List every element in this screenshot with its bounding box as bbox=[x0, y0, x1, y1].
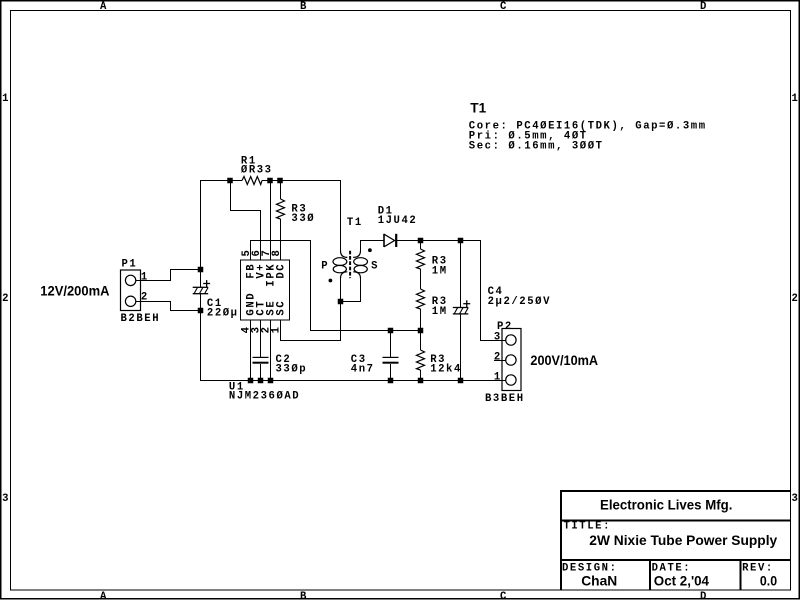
label R3 1M upper value bbox=[432, 265, 448, 277]
wire R3 12k4 bottom lead bbox=[420, 370, 422, 380]
U1 pin number 2 bbox=[261, 325, 273, 333]
svg-text:NJM236ØAD: NJM236ØAD bbox=[229, 391, 300, 403]
label C1 value 220u bbox=[207, 307, 239, 319]
wire CT pin3 upper lead bbox=[260, 320, 262, 357]
wire GND pin4 bbox=[250, 320, 252, 380]
zone letter C bottom bbox=[500, 591, 507, 600]
svg-text:1: 1 bbox=[494, 371, 502, 383]
svg-text:2: 2 bbox=[494, 351, 502, 363]
wire T1 primary top lead bbox=[340, 180, 342, 251]
svg-text:DC: DC bbox=[276, 263, 288, 279]
svg-text:1: 1 bbox=[271, 325, 283, 333]
wire P2 pin2 stub bbox=[494, 360, 506, 362]
U1 pin label GND bbox=[246, 292, 258, 316]
T1 S winding label bbox=[371, 260, 379, 272]
wire IPK pin7 bbox=[270, 180, 272, 260]
svg-text:0.0: 0.0 bbox=[760, 572, 777, 588]
zone number 1 left bbox=[2, 93, 8, 105]
U1 pin label DC bbox=[276, 263, 288, 279]
junction node T1 switch bbox=[338, 299, 344, 305]
connector P1 bbox=[121, 270, 141, 311]
U1 pin number 4 bbox=[241, 325, 253, 333]
svg-text:3: 3 bbox=[494, 331, 502, 343]
title block designer name bbox=[581, 572, 617, 588]
svg-text:B3BEH: B3BEH bbox=[485, 393, 525, 405]
svg-text:Electronic Lives Mfg.: Electronic Lives Mfg. bbox=[600, 497, 732, 513]
wire R3 1M lower to feedback node and R3 12k4 top bbox=[420, 309, 422, 350]
wire C3 top lead bbox=[390, 330, 392, 357]
svg-text:33Øp: 33Øp bbox=[276, 364, 308, 376]
label P2 pin 3 bbox=[494, 331, 502, 343]
capacitor C4 electrolytic symbol bbox=[453, 300, 470, 314]
label R3 330 value bbox=[291, 213, 315, 225]
U1 pin number 1 bbox=[271, 325, 283, 333]
svg-text:T1: T1 bbox=[347, 217, 363, 229]
input rating label 12V/200mA bbox=[40, 283, 109, 299]
resistor R3 1M upper zigzag bbox=[417, 249, 425, 269]
svg-text:22Øµ: 22Øµ bbox=[207, 307, 239, 319]
junction node GND input bbox=[198, 308, 204, 314]
svg-text:B2BEH: B2BEH bbox=[121, 313, 161, 325]
label U1 part number NJM2360AD bbox=[229, 391, 300, 403]
T1 annotation core spec bbox=[469, 120, 707, 132]
svg-text:12V/200mA: 12V/200mA bbox=[40, 283, 109, 299]
wire left vertical 12V/GND column upper bbox=[200, 180, 202, 287]
label C3 value 4n7 bbox=[351, 364, 375, 376]
op-amp U1 IC body bbox=[241, 260, 290, 320]
label P1 bbox=[122, 259, 138, 271]
label C3 bbox=[351, 354, 367, 366]
label C2 bbox=[276, 354, 292, 366]
label R3 1M lower bbox=[432, 296, 448, 308]
label R1 bbox=[241, 155, 257, 167]
svg-text:1: 1 bbox=[2, 93, 8, 105]
svg-text:1: 1 bbox=[141, 272, 149, 284]
title block title text bbox=[589, 532, 777, 548]
wire P1 pin2 to GND node bbox=[136, 302, 200, 311]
wire C3 bottom lead bbox=[390, 364, 392, 380]
label P1 footprint B2BEH bbox=[121, 313, 161, 325]
junction node GND R3 12k4 bbox=[418, 378, 424, 384]
wire R3 330 top lead bbox=[280, 180, 282, 199]
wire R3 330 bottom lead to pin8 bbox=[280, 219, 282, 260]
U1 pin label V+ bbox=[256, 263, 268, 279]
label R3 12k4 bbox=[430, 354, 446, 366]
svg-text:2W Nixie Tube Power Supply: 2W Nixie Tube Power Supply bbox=[589, 532, 777, 548]
wire 12V top rail right of R1 to T1 bbox=[262, 180, 340, 182]
svg-text:B: B bbox=[300, 1, 307, 13]
U1 pin number 3 bbox=[251, 325, 263, 333]
svg-text:A: A bbox=[100, 591, 107, 600]
junction node GND C3 bbox=[388, 378, 394, 384]
svg-text:B: B bbox=[300, 591, 307, 600]
wire V+ pin6 jog bbox=[231, 180, 261, 260]
svg-text:2µ2/25ØV: 2µ2/25ØV bbox=[488, 296, 551, 308]
junction node output at C4 bbox=[458, 238, 464, 244]
wire D1 cathode to output node bbox=[397, 240, 481, 242]
U1 pin label SE bbox=[266, 300, 278, 316]
svg-text:P1: P1 bbox=[122, 259, 138, 271]
zone number 1 right bbox=[792, 93, 798, 105]
label R3 1M lower value bbox=[432, 306, 448, 318]
wire T1 primary bottom lead bbox=[340, 278, 342, 341]
svg-text:P: P bbox=[321, 260, 329, 272]
title block box bbox=[560, 490, 790, 590]
U1 pin number 7 bbox=[261, 249, 273, 257]
junction node R1-IPK bbox=[267, 178, 273, 184]
svg-text:C: C bbox=[500, 1, 507, 13]
svg-text:D: D bbox=[700, 1, 706, 13]
title block REV: label bbox=[742, 562, 774, 574]
label P2 bbox=[497, 321, 513, 333]
svg-text:Oct 2,'04: Oct 2,'04 bbox=[654, 572, 709, 588]
wire R3 1M upper lead bbox=[420, 240, 422, 249]
label C1 bbox=[207, 298, 223, 310]
junction node 12V input bbox=[198, 267, 204, 273]
wire P1 pin1 to 12V node bbox=[136, 270, 200, 281]
svg-text:D: D bbox=[700, 591, 706, 600]
T1 annotation primary spec bbox=[469, 130, 588, 142]
wire 12V top rail left of R1 bbox=[200, 180, 242, 182]
connector P2 bbox=[502, 329, 521, 391]
label R1 value 0R33 bbox=[241, 165, 273, 177]
junction node 12V-R1-V+ bbox=[227, 178, 233, 184]
resistor R3 330 zigzag bbox=[277, 199, 285, 219]
label R3 330 bbox=[291, 204, 307, 216]
svg-text:T1: T1 bbox=[470, 100, 486, 116]
label P2 pin 2 bbox=[494, 351, 502, 363]
label T1 bbox=[347, 217, 363, 229]
label D1 value 1JU42 bbox=[378, 215, 418, 227]
zone letter A top bbox=[100, 1, 107, 13]
svg-text:12k4: 12k4 bbox=[430, 364, 462, 376]
svg-text:SC: SC bbox=[276, 300, 288, 316]
junction node GND SE bbox=[268, 378, 274, 384]
resistor R3 1M lower zigzag bbox=[417, 289, 425, 309]
label P2 pin 1 bbox=[494, 371, 502, 383]
label P2 footprint B3BEH bbox=[485, 393, 525, 405]
junction node output at R3 1M bbox=[418, 238, 424, 244]
label P1 pin 1 bbox=[141, 272, 149, 284]
T1 annotation secondary spec bbox=[469, 140, 604, 152]
svg-text:ChaN: ChaN bbox=[581, 572, 617, 588]
svg-text:2: 2 bbox=[2, 293, 8, 305]
zone letter C top bbox=[500, 1, 507, 13]
zone number 2 left bbox=[2, 293, 8, 305]
svg-text:ØR33: ØR33 bbox=[241, 165, 273, 177]
svg-text:2: 2 bbox=[792, 293, 798, 305]
junction node GND pin4 bbox=[248, 378, 254, 384]
zone letter B top bbox=[300, 1, 307, 13]
wire between R3 1M resistors bbox=[420, 269, 422, 289]
label R3 1M upper bbox=[432, 255, 448, 267]
wire ground rail bbox=[200, 380, 506, 382]
wire CT pin3 lower lead bbox=[260, 364, 262, 380]
svg-text:TITLE:: TITLE: bbox=[563, 521, 611, 533]
title block revision bbox=[760, 572, 777, 588]
T1 annotation heading bbox=[470, 100, 486, 116]
zone letter A bottom bbox=[100, 591, 107, 600]
zone number 2 right bbox=[792, 293, 798, 305]
wire C4 top lead bbox=[460, 240, 462, 307]
wire output to P2 pin3 bbox=[481, 240, 507, 341]
svg-text:S: S bbox=[371, 260, 379, 272]
title block date bbox=[654, 572, 709, 588]
U1 pin number 8 bbox=[271, 249, 283, 257]
U1 pin number 5 bbox=[241, 249, 253, 257]
capacitor C1 electrolytic symbol bbox=[193, 280, 210, 294]
U1 pin label FB bbox=[246, 263, 258, 279]
U1 pin label CT bbox=[256, 300, 268, 316]
transformer T1 bbox=[333, 251, 368, 279]
zone letter D bottom bbox=[700, 591, 706, 600]
junction node GND C4 bbox=[458, 378, 464, 384]
svg-text:33Ø: 33Ø bbox=[291, 213, 315, 225]
resistor R3 12k4 zigzag bbox=[417, 350, 425, 370]
T1 P winding label bbox=[321, 260, 329, 272]
svg-text:8: 8 bbox=[271, 249, 283, 257]
svg-text:1: 1 bbox=[792, 93, 798, 105]
wire T1 secondary top to D1 anode bbox=[361, 241, 385, 252]
svg-text:A: A bbox=[100, 1, 107, 13]
T1 secondary phase dot bbox=[368, 248, 372, 252]
svg-text:3: 3 bbox=[792, 493, 798, 505]
wire C4 bottom lead bbox=[460, 314, 462, 380]
zone number 3 right bbox=[792, 493, 798, 505]
label U1 bbox=[229, 382, 245, 394]
wire SC pin1 to switch node bbox=[281, 301, 341, 341]
svg-text:1JU42: 1JU42 bbox=[378, 215, 418, 227]
title block DESIGN: label bbox=[562, 562, 618, 574]
wire FB pin5 to feedback node bbox=[251, 241, 421, 331]
wire SE pin2 bbox=[270, 320, 272, 380]
svg-text:Sec: Ø.16mm, 3ØØT: Sec: Ø.16mm, 3ØØT bbox=[469, 140, 604, 152]
svg-text:200V/10mA: 200V/10mA bbox=[530, 352, 598, 368]
svg-text:3: 3 bbox=[2, 493, 8, 505]
diode D1 bbox=[384, 234, 396, 247]
capacitor C2 symbol bbox=[253, 357, 269, 362]
zone letter B bottom bbox=[300, 591, 307, 600]
junction node feedback C3 bbox=[388, 328, 394, 334]
label D1 bbox=[378, 206, 394, 218]
junction node feedback divider bbox=[418, 328, 424, 334]
label C4 bbox=[488, 286, 504, 298]
zone number 3 left bbox=[2, 493, 8, 505]
zone letter D top bbox=[700, 1, 706, 13]
junction node R3 330 top bbox=[277, 178, 283, 184]
svg-text:4n7: 4n7 bbox=[351, 364, 375, 376]
T1 primary phase dot bbox=[329, 279, 333, 283]
junction node GND CT bbox=[258, 378, 264, 384]
resistor R1 zigzag bbox=[242, 177, 262, 185]
svg-text:1M: 1M bbox=[432, 306, 448, 318]
wire T1 secondary bottom to switch node bbox=[340, 278, 361, 302]
svg-text:2: 2 bbox=[141, 292, 149, 304]
wire left vertical GND column lower bbox=[200, 294, 202, 380]
title block TITLE: label bbox=[563, 521, 611, 533]
svg-text:C: C bbox=[500, 591, 507, 600]
svg-text:1M: 1M bbox=[432, 265, 448, 277]
title block DATE: label bbox=[652, 562, 692, 574]
output rating label 200V/10mA bbox=[530, 352, 598, 368]
U1 pin number 6 bbox=[251, 249, 263, 257]
capacitor C3 symbol bbox=[383, 357, 399, 362]
label C2 value 330p bbox=[276, 364, 308, 376]
title block company name bbox=[600, 497, 732, 513]
label P1 pin 2 bbox=[141, 292, 149, 304]
U1 pin label IPK bbox=[266, 263, 278, 287]
U1 pin label SC bbox=[276, 300, 288, 316]
label R3 12k4 value bbox=[430, 364, 462, 376]
label C4 value 2u2/250V bbox=[488, 296, 551, 308]
